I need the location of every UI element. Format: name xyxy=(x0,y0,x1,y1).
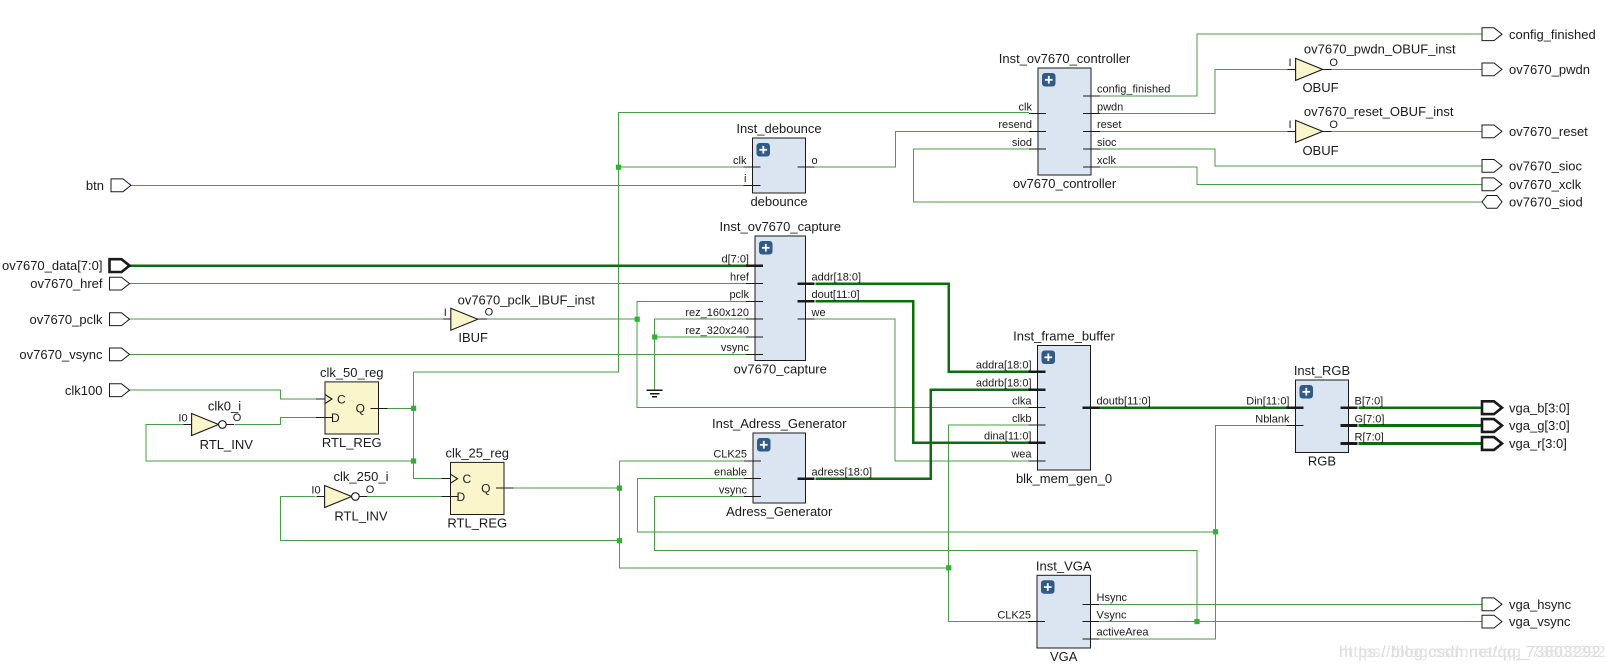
svg-text:ov7670_siod: ov7670_siod xyxy=(1509,195,1583,210)
port ov7670_reset xyxy=(1482,125,1502,138)
wire bus R[7:0] to vga_r port xyxy=(1359,442,1483,445)
svg-text:Inst_ov7670_controller: Inst_ov7670_controller xyxy=(999,51,1131,66)
svg-text:siod: siod xyxy=(1012,137,1032,149)
svg-text:C: C xyxy=(337,392,346,406)
svg-text:Inst_ov7670_capture: Inst_ov7670_capture xyxy=(720,219,841,234)
wire net clk_250_i.O to clk_25_reg.D xyxy=(367,496,442,498)
buffer ov7670_reset_OBUF_inst (OBUF) xyxy=(1288,119,1339,143)
svg-text:ov7670_controller: ov7670_controller xyxy=(1013,176,1117,191)
wire net clk_50 feedback to clk0_i input xyxy=(146,425,414,462)
wire net clk0_i.O to clk_50_reg.D xyxy=(235,418,317,425)
svg-text:RTL_INV: RTL_INV xyxy=(334,509,388,524)
svg-text:https://blog.csdn.net/qq_73803: https://blog.csdn.net/qq_73803292 xyxy=(1344,644,1606,661)
svg-text:btn: btn xyxy=(86,178,104,193)
flip-flop clk_25_reg (RTL_REG) xyxy=(442,445,514,530)
wire bus doutb[11:0] to RGB.Din xyxy=(1100,406,1288,409)
svg-text:Vsync: Vsync xyxy=(1097,609,1127,621)
junction pclk node xyxy=(635,317,640,322)
port vga_vsync xyxy=(1482,615,1502,628)
svg-text:enable: enable xyxy=(714,467,747,479)
svg-text:reset: reset xyxy=(1097,119,1121,131)
wire net Hsync to vga_hsync port xyxy=(1100,603,1482,605)
svg-text:clk_25_reg: clk_25_reg xyxy=(445,445,509,460)
wire bus addr[18:0] capture to fb.addra xyxy=(815,284,1028,372)
junction clk_50 feedback node xyxy=(411,458,416,463)
wire net activeArea branch to enable xyxy=(638,479,1216,532)
block U_rgb (RGB) xyxy=(1246,363,1384,469)
svg-text:CLK25: CLK25 xyxy=(997,609,1031,621)
wire net siod: controller.siod to ov7670_siod port xyxy=(914,149,1483,202)
svg-text:clk100: clk100 xyxy=(65,383,103,398)
wire net Vsync to vga_vsync port xyxy=(1100,621,1482,623)
svg-text:clk_250_i: clk_250_i xyxy=(334,469,389,484)
svg-text:ov7670_pclk: ov7670_pclk xyxy=(30,312,103,327)
svg-text:xclk: xclk xyxy=(1097,155,1116,167)
svg-text:O: O xyxy=(1329,119,1338,131)
block U_addrgen (Adress_Generator) xyxy=(712,416,872,519)
svg-text:Inst_Adress_Generator: Inst_Adress_Generator xyxy=(712,416,847,431)
svg-text:activeArea: activeArea xyxy=(1097,627,1150,639)
svg-text:O: O xyxy=(233,412,242,424)
svg-text:clkb: clkb xyxy=(1012,413,1032,425)
svg-text:vga_b[3:0]: vga_b[3:0] xyxy=(1509,400,1570,415)
svg-text:OBUF: OBUF xyxy=(1302,80,1338,95)
wire net Vsync branch to AddrGen.vsync xyxy=(655,497,1197,622)
svg-text:d[7:0]: d[7:0] xyxy=(721,253,749,265)
svg-text:Hsync: Hsync xyxy=(1097,592,1128,604)
svg-text:ov7670_data[7:0]: ov7670_data[7:0] xyxy=(2,258,102,273)
svg-text:rez_320x240: rez_320x240 xyxy=(685,325,749,337)
wire net clk_50 vertical riser x=413.6 xyxy=(414,372,442,479)
wire net pwdn to OBUF input xyxy=(1100,69,1288,113)
svg-text:I: I xyxy=(444,307,447,319)
svg-text:rez_160x120: rez_160x120 xyxy=(685,307,749,319)
port ov7670_sioc xyxy=(1482,160,1502,173)
junction activeArea node xyxy=(1213,529,1218,534)
svg-text:dout[11:0]: dout[11:0] xyxy=(812,289,860,301)
wire net sioc to output port xyxy=(1100,149,1482,166)
wire net ov7670_href to capture.href xyxy=(130,283,747,285)
svg-text:O: O xyxy=(485,307,494,319)
port clk100 xyxy=(110,384,130,397)
svg-text:i: i xyxy=(744,173,746,185)
svg-text:clk: clk xyxy=(1019,101,1033,113)
svg-text:we: we xyxy=(811,307,826,319)
port ov7670_href xyxy=(110,277,130,290)
svg-text:Q: Q xyxy=(356,402,365,416)
svg-text:vsync: vsync xyxy=(721,342,750,354)
wire net clk_25 riser x=619.4 with CLK25 branch xyxy=(619,461,948,568)
svg-text:pwdn: pwdn xyxy=(1097,101,1123,113)
svg-text:pclk: pclk xyxy=(729,289,749,301)
wire bus B[7:0] to vga_b port xyxy=(1359,406,1483,409)
svg-text:ov7670_capture: ov7670_capture xyxy=(734,362,827,377)
svg-text:vga_g[3:0]: vga_g[3:0] xyxy=(1509,418,1570,433)
svg-text:ov7670_xclk: ov7670_xclk xyxy=(1509,177,1582,192)
wire net config_finished to output port xyxy=(1100,34,1482,96)
svg-text:ov7670_sioc: ov7670_sioc xyxy=(1509,159,1582,174)
wire net activeArea to RGB.Nblank and AddrGen.enable xyxy=(1100,426,1287,639)
block U_vga (VGA) xyxy=(997,558,1149,664)
svg-text:resend: resend xyxy=(998,119,1032,131)
svg-text:adress[18:0]: adress[18:0] xyxy=(812,467,873,479)
svg-text:vsync: vsync xyxy=(719,484,748,496)
block U_controller (ov7670_controller) xyxy=(998,51,1170,191)
svg-text:o: o xyxy=(812,155,818,167)
wire net clk_50 horizontal y=372 and riser to clk pins xyxy=(414,113,1029,373)
wire bus G[7:0] to vga_g port xyxy=(1359,424,1483,427)
wire bus adress[18:0] to fb.addrb xyxy=(815,390,1028,479)
wire net clk_25 feedback to clk_250_i input xyxy=(281,497,620,541)
svg-text:vga_r[3:0]: vga_r[3:0] xyxy=(1509,436,1567,451)
svg-text:sioc: sioc xyxy=(1097,137,1117,149)
wire bus ov7670_data[7:0] to capture.d xyxy=(129,264,747,267)
wire net ov7670_vsync to capture.vsync xyxy=(130,353,747,355)
svg-text:I0: I0 xyxy=(178,412,187,424)
wire net ov7670_pclk to IBUF input xyxy=(130,318,443,320)
ground symbol GND xyxy=(647,390,663,396)
svg-text:RGB: RGB xyxy=(1308,454,1336,469)
buffer ov7670_pclk_IBUF_inst (IBUF) xyxy=(443,307,494,331)
svg-text:I: I xyxy=(1289,119,1292,131)
svg-text:IBUF: IBUF xyxy=(458,330,488,345)
port ov7670_pclk xyxy=(110,313,130,326)
port vga_b[3:0] xyxy=(1482,401,1502,414)
port ov7670_xclk xyxy=(1482,178,1502,191)
wire net const0 branch rez_320x240 xyxy=(655,336,746,338)
buffer ov7670_pwdn_OBUF_inst (OBUF) xyxy=(1288,57,1339,81)
svg-text:R[7:0]: R[7:0] xyxy=(1355,431,1384,443)
svg-text:vga_hsync: vga_hsync xyxy=(1509,597,1572,612)
svg-text:addrb[18:0]: addrb[18:0] xyxy=(976,377,1032,389)
svg-text:Inst_RGB: Inst_RGB xyxy=(1294,363,1350,378)
port ov7670_vsync xyxy=(110,348,130,361)
svg-text:CLK25: CLK25 xyxy=(713,449,747,461)
svg-text:debounce: debounce xyxy=(750,194,807,209)
port ov7670_pwdn xyxy=(1482,63,1502,76)
svg-text:VGA: VGA xyxy=(1050,649,1078,664)
port btn xyxy=(111,179,131,192)
svg-text:RTL_INV: RTL_INV xyxy=(200,437,254,452)
port ov7670_siod xyxy=(1482,196,1502,209)
svg-text:B[7:0]: B[7:0] xyxy=(1355,396,1384,408)
wire net reset OBUF output to port xyxy=(1331,130,1482,132)
svg-text:addra[18:0]: addra[18:0] xyxy=(976,360,1032,372)
svg-text:O: O xyxy=(1329,57,1338,69)
wire net pclk_IBUF out to capture.pclk and fb.clka xyxy=(486,318,638,320)
port vga_g[3:0] xyxy=(1482,419,1502,432)
junction clk_25 at x=948.7 xyxy=(946,565,951,570)
svg-text:RTL_REG: RTL_REG xyxy=(447,516,507,531)
wire net pclk riser x=637.2 xyxy=(637,301,1028,407)
svg-text:vga_vsync: vga_vsync xyxy=(1509,614,1571,629)
wire net clk_25 riser x=948.7 to clkb and VGA.CLK25 xyxy=(949,425,1029,622)
flip-flop clk_50_reg (RTL_REG) xyxy=(316,365,388,450)
svg-text:Nblank: Nblank xyxy=(1255,413,1290,425)
svg-text:blk_mem_gen_0: blk_mem_gen_0 xyxy=(1016,471,1112,486)
wire net xclk to output port xyxy=(1100,167,1482,184)
port vga_r[3:0] xyxy=(1482,437,1502,450)
wire net debounce.o to controller.resend xyxy=(815,131,1030,167)
svg-text:I: I xyxy=(1289,57,1292,69)
svg-text:ov7670_vsync: ov7670_vsync xyxy=(19,347,103,362)
svg-text:wea: wea xyxy=(1010,449,1032,461)
svg-text:clka: clka xyxy=(1012,396,1032,408)
wire net we capture to fb.wea xyxy=(815,319,1029,461)
wire net btn to debounce.i xyxy=(130,184,744,186)
svg-text:clk: clk xyxy=(733,155,747,167)
wire net const0 to rez_160x120 and rez_320x240 xyxy=(655,319,746,390)
svg-text:G[7:0]: G[7:0] xyxy=(1355,413,1385,425)
svg-text:ov7670_reset: ov7670_reset xyxy=(1509,124,1588,139)
svg-text:config_finished: config_finished xyxy=(1097,84,1170,96)
svg-text:ov7670_pwdn_OBUF_inst: ov7670_pwdn_OBUF_inst xyxy=(1304,41,1456,56)
wire net clk100 to clk_50_reg.C xyxy=(130,390,317,399)
svg-text:OBUF: OBUF xyxy=(1302,143,1338,158)
inverter clk0_i (clk0_i) xyxy=(178,412,241,436)
junction clk_25 feedback node xyxy=(617,538,622,543)
svg-text:Din[11:0]: Din[11:0] xyxy=(1246,396,1289,408)
wire net clk_25: Q to riser xyxy=(513,487,619,489)
port vga_hsync xyxy=(1482,598,1502,611)
wire net pwdn OBUF output to port xyxy=(1331,68,1482,70)
svg-text:ov7670_pclk_IBUF_inst: ov7670_pclk_IBUF_inst xyxy=(458,293,596,308)
svg-text:dina[11:0]: dina[11:0] xyxy=(984,431,1032,443)
wire bus dout[11:0] capture to fb.dina xyxy=(815,301,1028,442)
svg-text:ov7670_pwdn: ov7670_pwdn xyxy=(1509,62,1590,77)
svg-text:Inst_frame_buffer: Inst_frame_buffer xyxy=(1013,329,1115,344)
svg-text:ov7670_reset_OBUF_inst: ov7670_reset_OBUF_inst xyxy=(1304,104,1454,119)
svg-text:doutb[11:0]: doutb[11:0] xyxy=(1097,396,1151,408)
svg-text:href: href xyxy=(730,271,750,283)
svg-text:ov7670_href: ov7670_href xyxy=(30,276,103,291)
svg-text:Adress_Generator: Adress_Generator xyxy=(726,504,833,519)
port ov7670_data[7:0] xyxy=(110,259,130,272)
wire net reset to OBUF input xyxy=(1100,130,1288,132)
wire net clk_50: Q to feedback/controller.clk/debounce.clk xyxy=(388,407,414,409)
svg-text:config_finished: config_finished xyxy=(1509,27,1596,42)
svg-text:Q: Q xyxy=(481,481,490,495)
junction clk_25 Q node xyxy=(617,486,622,491)
junction clk_50 Q node xyxy=(411,406,416,411)
svg-text:I0: I0 xyxy=(311,484,320,496)
svg-text:RTL_REG: RTL_REG xyxy=(322,435,382,450)
port config_finished xyxy=(1482,28,1502,41)
svg-text:Inst_VGA: Inst_VGA xyxy=(1036,558,1092,573)
junction Vsync node xyxy=(1194,619,1199,624)
junction const0 node xyxy=(652,334,657,339)
block U_capture (ov7670_capture) xyxy=(685,219,861,377)
wire net clk_50 branch to debounce.clk xyxy=(619,166,744,168)
svg-text:C: C xyxy=(463,472,472,486)
block U_framebuffer (blk_mem_gen_0) xyxy=(976,329,1151,487)
svg-text:addr[18:0]: addr[18:0] xyxy=(812,271,862,283)
svg-text:clk_50_reg: clk_50_reg xyxy=(320,365,384,380)
block U_debounce (debounce) xyxy=(733,121,822,209)
inverter clk_250_i (clk_250_i) xyxy=(311,484,374,508)
junction clk_50 at debounce.clk xyxy=(616,165,621,170)
svg-text:O: O xyxy=(366,484,375,496)
svg-text:Inst_debounce: Inst_debounce xyxy=(736,121,821,136)
